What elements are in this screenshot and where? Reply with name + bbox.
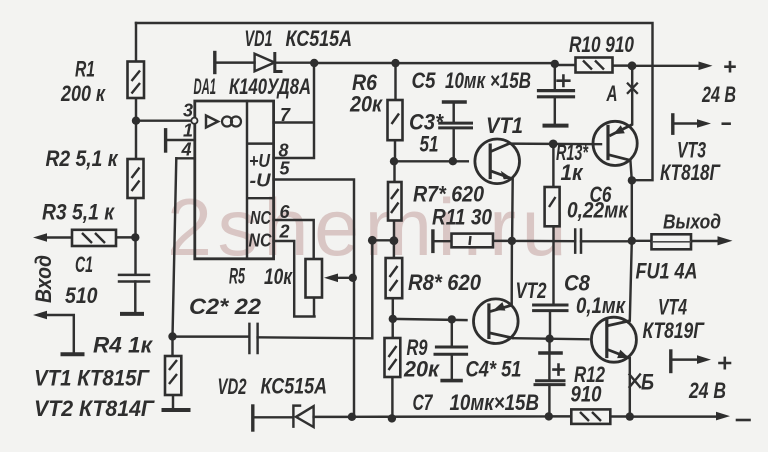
svg-text:VD2: VD2	[218, 374, 248, 399]
svg-text:510: 510	[65, 283, 98, 308]
svg-text:6: 6	[280, 202, 291, 222]
svg-text:C8: C8	[564, 271, 591, 296]
svg-text:1: 1	[183, 121, 193, 141]
svg-text:A: A	[606, 81, 618, 106]
svg-text:3: 3	[183, 101, 193, 121]
svg-text:0,22мк: 0,22мк	[567, 198, 630, 223]
svg-text:C1: C1	[75, 252, 93, 277]
svg-text:DA1: DA1	[194, 74, 217, 99]
svg-text:4: 4	[181, 140, 192, 160]
svg-text:10к: 10к	[264, 264, 293, 289]
svg-text:C2* 22: C2* 22	[189, 294, 262, 319]
svg-text:51: 51	[420, 132, 439, 157]
svg-text:VD1: VD1	[245, 26, 273, 51]
svg-text:R2 5,1 к: R2 5,1 к	[46, 146, 120, 171]
svg-text:20к: 20к	[349, 92, 384, 117]
svg-text:VT2 КТ814Г: VT2 КТ814Г	[34, 396, 155, 421]
svg-text:КС515А: КС515А	[286, 26, 353, 51]
svg-text:200 к: 200 к	[60, 81, 106, 106]
svg-text:R4 1к: R4 1к	[93, 333, 154, 358]
svg-text:VT1 КТ815Г: VT1 КТ815Г	[34, 366, 150, 391]
svg-text:1к: 1к	[561, 160, 585, 185]
svg-text:R5: R5	[229, 264, 245, 289]
svg-text:Б: Б	[641, 370, 654, 395]
svg-text:NC: NC	[250, 208, 272, 228]
svg-text:VT4: VT4	[658, 295, 687, 320]
svg-text:7: 7	[280, 105, 291, 125]
svg-text:КТ818Г: КТ818Г	[660, 160, 721, 185]
svg-text:VT1: VT1	[486, 113, 523, 138]
svg-text:NC: NC	[249, 231, 273, 251]
svg-text:Вход: Вход	[31, 255, 56, 303]
svg-text:C4* 51: C4* 51	[466, 357, 522, 382]
svg-text:FU1 4A: FU1 4A	[636, 259, 698, 284]
svg-text:910: 910	[571, 382, 603, 407]
svg-text:R7* 620: R7* 620	[413, 182, 485, 207]
svg-text:8: 8	[279, 141, 289, 161]
svg-text:R10 910: R10 910	[569, 32, 635, 57]
svg-text:R1: R1	[75, 57, 95, 82]
svg-text:Выход: Выход	[663, 211, 721, 234]
svg-text:10мк×15В: 10мк×15В	[450, 390, 540, 415]
svg-text:-U: -U	[250, 171, 272, 191]
svg-text:C5: C5	[412, 68, 437, 93]
svg-text:10мк ×15В: 10мк ×15В	[445, 68, 531, 93]
svg-text:0,1мк: 0,1мк	[576, 293, 627, 318]
svg-text:R11 30: R11 30	[432, 205, 493, 230]
svg-text:КС515А: КС515А	[261, 374, 328, 399]
svg-text:+U: +U	[249, 151, 271, 171]
svg-text:2: 2	[279, 222, 290, 242]
svg-text:C7: C7	[413, 390, 434, 415]
svg-text:5: 5	[280, 159, 291, 179]
svg-text:К140УД8А: К140УД8А	[229, 74, 311, 99]
svg-text:20к: 20к	[403, 357, 441, 382]
svg-text:24 В: 24 В	[701, 82, 736, 107]
svg-text:VT2: VT2	[516, 278, 548, 303]
svg-text:КТ819Г: КТ819Г	[643, 318, 706, 343]
svg-text:VT3: VT3	[677, 138, 706, 163]
svg-text:24 В: 24 В	[688, 378, 726, 403]
svg-text:R3 5,1 к: R3 5,1 к	[42, 200, 116, 225]
svg-text:R8* 620: R8* 620	[408, 270, 482, 295]
